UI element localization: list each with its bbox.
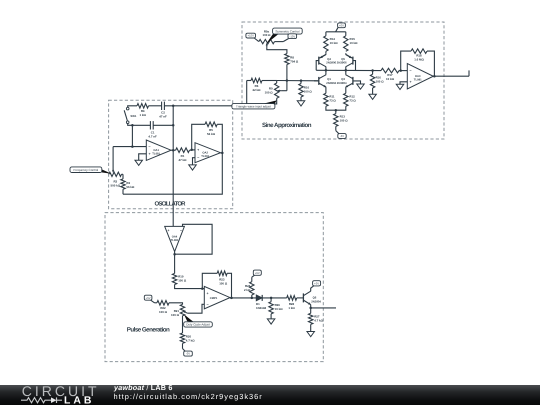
resistor R26 10k bbox=[270, 298, 272, 302]
resistor R28 1k bbox=[287, 296, 297, 301]
svg-text:1.6 MΩ: 1.6 MΩ bbox=[414, 58, 424, 62]
svg-text:47 kΩ: 47 kΩ bbox=[179, 158, 188, 162]
resistor R20 4.7k bbox=[180, 333, 184, 343]
svg-text:1N4148: 1N4148 bbox=[256, 306, 267, 310]
svg-text:TL081: TL081 bbox=[201, 155, 209, 158]
svg-text:Triangle wave input adjust: Triangle wave input adjust bbox=[236, 105, 271, 109]
svg-text:2N3906: 2N3906 bbox=[337, 61, 347, 65]
switch SW1 bbox=[126, 107, 129, 110]
resistor R12 73 bbox=[344, 93, 348, 106]
ground bbox=[307, 332, 315, 337]
node +5V flag (diode pullup) bbox=[251, 277, 253, 282]
op-amp OA4 TL081 buffer (points down) bbox=[165, 226, 185, 251]
svg-text:+15V: +15V bbox=[248, 35, 255, 38]
wire to comparator bbox=[175, 285, 205, 289]
wire supply rail bbox=[336, 28, 338, 32]
svg-text:OSCILLATOR: OSCILLATOR bbox=[155, 201, 187, 208]
wire to op-amp bbox=[399, 70, 407, 72]
resistor R4 1k bbox=[137, 104, 149, 109]
svg-text:500 kΩ: 500 kΩ bbox=[111, 183, 121, 187]
svg-text:10 kΩ: 10 kΩ bbox=[330, 41, 339, 45]
transistor Q5 2N3906 bbox=[352, 57, 354, 65]
svg-text:+5V: +5V bbox=[255, 272, 260, 275]
wire square feedback bbox=[123, 153, 222, 194]
wire to OA2 bbox=[190, 149, 196, 151]
wire output bbox=[174, 252, 176, 274]
wire top to sine box bbox=[164, 105, 232, 107]
svg-text:10 kΩ: 10 kΩ bbox=[275, 307, 284, 311]
wire Q3 base to ground bbox=[353, 81, 361, 84]
svg-text:-15V: -15V bbox=[289, 35, 295, 38]
wire triangle feed (OA1 out to OA4) bbox=[172, 150, 174, 226]
svg-text:http://circuitlab.com/ck2r9yeg: http://circuitlab.com/ck2r9yeg3k36r bbox=[114, 392, 263, 401]
svg-text:LAB: LAB bbox=[64, 395, 94, 405]
ground bbox=[369, 94, 377, 99]
svg-text:Pulse Generation: Pulse Generation bbox=[127, 326, 170, 333]
wire wiper to R8 bbox=[267, 48, 287, 54]
svg-text:Sine Approximation: Sine Approximation bbox=[262, 122, 312, 129]
svg-text:100 Ω: 100 Ω bbox=[304, 89, 313, 93]
footer bar bbox=[0, 385, 540, 405]
svg-text:100 Ω: 100 Ω bbox=[265, 90, 274, 94]
feedback loop R18 bbox=[401, 51, 411, 71]
svg-text:+5V: +5V bbox=[339, 24, 344, 27]
resistor R18 1.6M bbox=[411, 49, 427, 54]
resistor R17 10k bbox=[381, 68, 399, 73]
svg-text:100 Ω: 100 Ω bbox=[159, 310, 168, 314]
svg-text:TL081: TL081 bbox=[414, 78, 422, 81]
comparator CMP1 bbox=[204, 286, 230, 308]
svg-text:+: + bbox=[197, 148, 199, 152]
svg-text:+5V: +5V bbox=[314, 282, 319, 285]
op-amp OA1 TL081 bbox=[146, 140, 171, 160]
svg-text:TL081: TL081 bbox=[152, 152, 160, 155]
svg-text:Symmetry Control: Symmetry Control bbox=[275, 29, 299, 33]
wire feedback loop bbox=[175, 224, 213, 254]
svg-text:100 Ω: 100 Ω bbox=[219, 282, 228, 286]
potentiometer R9a 100 bbox=[259, 39, 275, 43]
ground bbox=[267, 319, 275, 324]
wire - input to ground bbox=[193, 158, 196, 165]
capacitor C2 47nF bbox=[161, 102, 163, 110]
wire + input to ground bbox=[139, 154, 147, 160]
resistor R15 10k bbox=[345, 32, 347, 36]
wire wiper junction bbox=[282, 90, 287, 92]
resistor R8 794 bbox=[285, 54, 289, 65]
ground bbox=[297, 101, 305, 106]
main input rail bbox=[247, 80, 251, 82]
resistor R10 100 bbox=[300, 81, 302, 84]
wire wiper riser bbox=[112, 147, 114, 171]
annotation Frequency Control bbox=[102, 169, 112, 173]
node -5V flag bbox=[182, 343, 184, 348]
svg-text:2N3906: 2N3906 bbox=[326, 61, 336, 65]
svg-text:100 Ω: 100 Ω bbox=[340, 119, 349, 123]
Pulse Generation section box bbox=[105, 213, 323, 362]
resistor R13 100 bbox=[335, 110, 337, 113]
svg-text:+: + bbox=[207, 292, 209, 296]
svg-text:-5V: -5V bbox=[186, 353, 190, 356]
svg-text:2N3904: 2N3904 bbox=[326, 81, 336, 85]
svg-text:CMP1: CMP1 bbox=[210, 297, 218, 300]
wire bbox=[262, 80, 277, 82]
wire feedback riser bbox=[172, 106, 174, 150]
resistor R5 56k bbox=[205, 122, 217, 127]
resistor R2 56k bbox=[122, 189, 124, 194]
resistor R14 10k bbox=[325, 32, 327, 36]
wire output node bbox=[171, 149, 176, 151]
wire bbox=[254, 38, 259, 42]
resistor R24 2k bbox=[251, 295, 253, 298]
svg-text:1 kΩ: 1 kΩ bbox=[140, 113, 147, 117]
svg-text:4.7 kΩ: 4.7 kΩ bbox=[314, 319, 323, 323]
potentiometer R9 100 bbox=[275, 83, 279, 98]
wire output bbox=[433, 75, 469, 77]
svg-text:100 Ω: 100 Ω bbox=[376, 80, 385, 84]
resistor R6 22k bbox=[251, 78, 262, 83]
svg-text:Frequency Control: Frequency Control bbox=[74, 168, 99, 172]
op-amp OA3 TL081 bbox=[407, 64, 433, 89]
node -5V flag bbox=[335, 126, 337, 130]
transistor Q3 2N3904 bbox=[352, 77, 354, 85]
feedback loop R5 bbox=[192, 124, 205, 150]
potentiometer R21 100 bbox=[180, 304, 184, 315]
resistor R22 100 bbox=[157, 301, 169, 306]
wire output bbox=[221, 152, 223, 154]
svg-text:2 kΩ: 2 kΩ bbox=[244, 288, 251, 292]
svg-text:22 kΩ: 22 kΩ bbox=[253, 88, 262, 92]
wire bbox=[151, 300, 155, 303]
annotation Symmetry Control bbox=[266, 33, 278, 44]
wire + input to ground bbox=[400, 82, 407, 85]
wire wiper to comparator bbox=[187, 304, 204, 313]
svg-text:1 kΩ: 1 kΩ bbox=[288, 306, 295, 310]
transistor Q1 2N3904 bbox=[318, 77, 320, 85]
svg-text:SW1: SW1 bbox=[130, 114, 137, 118]
wire bbox=[297, 297, 304, 299]
resistor R27 4.7k bbox=[310, 308, 312, 313]
wire emitter node bbox=[310, 305, 312, 308]
svg-text:100 Ω: 100 Ω bbox=[171, 313, 180, 317]
resistor R11 73 bbox=[324, 93, 328, 106]
diode D1 1N4148 bbox=[256, 295, 262, 301]
op-amp OA2 TL081 bbox=[195, 143, 221, 163]
potentiometer R3 500k bbox=[122, 173, 124, 175]
svg-text:TL081: TL081 bbox=[171, 239, 179, 242]
svg-text:2N3904: 2N3904 bbox=[337, 81, 347, 85]
transistor Q6 2N3904 bbox=[302, 293, 304, 302]
svg-text:+5V: +5V bbox=[146, 297, 151, 300]
svg-text:10 kΩ: 10 kΩ bbox=[350, 41, 359, 45]
wire top bbox=[128, 106, 137, 108]
node +15V flag bbox=[246, 33, 256, 38]
wire rail to R10 bbox=[277, 80, 319, 82]
svg-text:+: + bbox=[167, 228, 169, 232]
capacitor C1 4.7nF bbox=[149, 121, 151, 129]
annotation Duty Cycle Adjust bbox=[184, 314, 194, 322]
svg-text:+: + bbox=[148, 152, 150, 156]
resistor R23 100 bbox=[217, 271, 227, 276]
wire emitter join bbox=[326, 106, 346, 110]
ground bbox=[396, 84, 404, 89]
node -15V flag bbox=[275, 41, 284, 43]
svg-text:yawboat / LAB 6: yawboat / LAB 6 bbox=[113, 385, 173, 392]
ground bbox=[189, 165, 197, 170]
transistor Q4 2N3906 bbox=[325, 51, 327, 53]
wire bbox=[169, 303, 183, 305]
svg-text:56 kΩ: 56 kΩ bbox=[207, 132, 216, 136]
svg-text:794 Ω: 794 Ω bbox=[290, 60, 299, 64]
node +5V flag (Q6 collector) bbox=[311, 286, 314, 291]
resistor R1 47k bbox=[176, 148, 190, 153]
wire bbox=[182, 316, 184, 333]
svg-text:73 Ω: 73 Ω bbox=[349, 99, 356, 103]
wire pot bottom bbox=[247, 98, 277, 104]
resistor R19 100 bbox=[172, 273, 176, 284]
feedback loop R23 bbox=[202, 273, 217, 288]
svg-text:73 Ω: 73 Ω bbox=[329, 99, 336, 103]
svg-text:100 Ω: 100 Ω bbox=[178, 279, 187, 283]
wire bbox=[149, 105, 162, 107]
node +5V flag (duty source) bbox=[144, 295, 152, 300]
svg-text:100 Ω: 100 Ω bbox=[263, 33, 272, 37]
svg-text:2N3904: 2N3904 bbox=[311, 299, 321, 303]
OSCILLATOR section box bbox=[109, 100, 233, 209]
wire switch bottom bbox=[128, 124, 151, 126]
svg-text:10 kΩ: 10 kΩ bbox=[386, 77, 395, 81]
resistor R16 100 bbox=[372, 71, 374, 75]
ground bbox=[357, 84, 365, 89]
node +5V flag (diff pair supply) bbox=[338, 23, 346, 28]
annotation Triangle wave input adjust bbox=[263, 100, 277, 103]
svg-text:4.7 kΩ: 4.7 kΩ bbox=[186, 339, 195, 343]
wire bbox=[262, 297, 287, 299]
wire comparator output bbox=[230, 297, 256, 299]
svg-text:56 kΩ: 56 kΩ bbox=[126, 185, 135, 189]
wire inverting branch bbox=[131, 125, 133, 146]
wire R6 left leg bbox=[246, 81, 248, 106]
svg-text:+: + bbox=[409, 80, 411, 84]
ground bbox=[135, 160, 143, 165]
svg-text:Duty Cycle Adjust: Duty Cycle Adjust bbox=[186, 323, 210, 327]
svg-text:4.7 nF: 4.7 nF bbox=[148, 134, 157, 138]
Sine Approximation section box bbox=[242, 22, 444, 139]
wire bbox=[153, 124, 173, 126]
svg-text:-5V: -5V bbox=[340, 135, 344, 138]
svg-text:47 nF: 47 nF bbox=[159, 115, 167, 119]
collector rail / output line bbox=[316, 69, 381, 71]
